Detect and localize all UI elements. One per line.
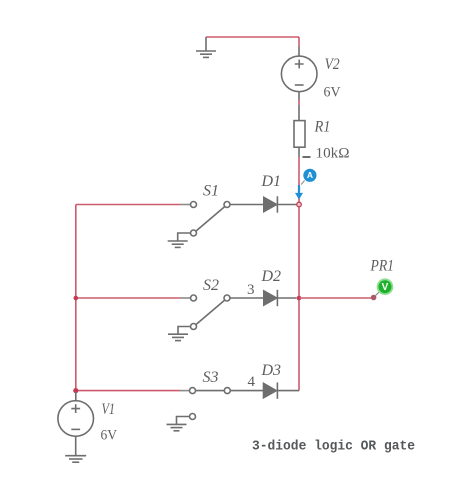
label V1 [102,401,116,418]
wire right vertical bus [298,157,300,391]
svg-text:S3: S3 [203,369,219,386]
svg-text:4: 4 [248,374,256,390]
current probe bubble A [303,169,316,182]
current probe arrow [295,181,305,200]
diode D3 [263,382,299,398]
svg-text:V: V [382,282,389,293]
node junction ring (D1 cathode to bus) [297,202,302,207]
svg-text:S1: S1 [203,183,219,200]
diode D1 [264,196,297,212]
wire row2 horizontal [76,297,180,299]
svg-text:3: 3 [247,282,255,298]
ground (S2 throw) [168,327,191,341]
switch S3 [180,388,263,420]
voltage source V2 [281,47,317,101]
wire V2 to R1 [298,101,300,106]
voltage source V1 [58,392,94,436]
label D2 [261,268,282,285]
wire row3 horizontal [76,390,180,392]
svg-text:V1: V1 [102,401,116,418]
svg-text:V2: V2 [325,56,340,73]
ground (S1 throw) [168,233,191,247]
caption text [252,439,415,455]
resistor R1 [294,105,305,157]
label S2 [203,277,219,294]
node dot PR1 tap [371,295,377,301]
svg-text:10kΩ: 10kΩ [316,146,350,162]
voltage probe PR1 [376,279,393,295]
wire top horizontal (ground to V2) [206,36,299,38]
ground (V1 negative) [65,436,86,462]
node junction dot (D2 row on bus) [297,296,302,301]
value 6V (V2) [324,85,341,101]
svg-text:3-diode logic OR gate: 3-diode logic OR gate [252,439,415,455]
svg-text:S2: S2 [203,277,219,294]
wire row1 horizontal [76,204,180,206]
node number 4 [248,374,256,390]
svg-text:D2: D2 [261,268,282,285]
svg-text:D1: D1 [261,173,282,190]
label V2 [325,56,340,73]
label PR1 [370,258,394,275]
label S1 [203,183,219,200]
label R1 [314,119,331,136]
ground (S3 throw) [167,417,190,431]
label D1 [261,173,282,190]
svg-text:R1: R1 [314,119,331,136]
node number 3 [247,282,255,298]
switch S2 [180,295,264,330]
label D3 [261,362,282,379]
svg-text:6V: 6V [101,428,118,444]
node junction dot (row2 on left bus) [74,296,79,301]
wire V2 top vertical [298,37,300,47]
node junction dot (row3 / V1) [73,388,78,393]
wire left vertical bus [75,205,77,391]
switch S1 [180,202,264,237]
diode D2 [264,290,297,306]
label S3 [203,369,219,386]
probe PR2 minus mark [303,156,311,158]
wire PR1 horizontal [299,297,371,299]
value 6V (V1) [101,428,118,444]
ground (top left) [196,37,216,57]
svg-text:D3: D3 [261,362,282,379]
svg-text:PR1: PR1 [370,258,394,275]
value 10kΩ [316,146,350,162]
svg-text:6V: 6V [324,85,341,101]
svg-text:A: A [307,170,313,180]
